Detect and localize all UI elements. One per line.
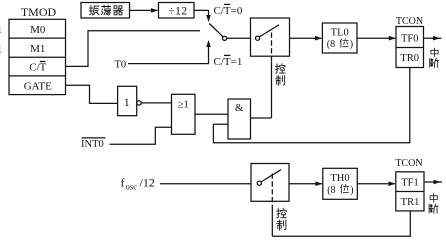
TL0 (8 bit) box	[322, 23, 357, 53]
svg-text:M1: M1	[30, 43, 45, 55]
TCON divider TF1/TR1	[396, 191, 424, 193]
TMOD row divider M0/M1	[9, 37, 66, 39]
svg-text:C/T=0: C/T=0	[214, 5, 243, 17]
interrupt arrow (top)	[424, 37, 442, 39]
control switch box (timer 0 high)	[251, 164, 289, 202]
wire TL0 to TCON	[357, 37, 395, 39]
wire divider to switch top contact	[194, 10, 209, 15]
label 控制 (bottom)	[277, 208, 287, 218]
TCON divider TF0/TR0	[396, 47, 424, 49]
wire pole to control switch	[227, 37, 251, 39]
svg-text:TH0: TH0	[330, 173, 349, 184]
svg-text:TCON: TCON	[395, 158, 422, 169]
svg-text:TCON: TCON	[396, 16, 423, 27]
svg-text:&: &	[235, 102, 244, 114]
svg-text:1: 1	[0, 43, 2, 55]
inverter (NOT) gate box 1	[118, 86, 137, 115]
wire AND output to control line	[251, 117, 272, 119]
svg-text:(8: (8	[327, 39, 335, 50]
svg-text:÷12: ÷12	[168, 6, 187, 18]
TR1 feedback wire to control	[272, 211, 410, 236]
divide-by-12 box	[159, 3, 195, 19]
wire OR to AND	[195, 113, 228, 115]
control switch contact circle (bottom)	[257, 181, 261, 185]
TR0 feedback wire to AND gate	[213, 68, 409, 143]
svg-text:TL0: TL0	[331, 27, 349, 38]
svg-text:): )	[350, 185, 353, 196]
control solid line down to TR1 wire	[271, 208, 273, 237]
TMOD row divider M1/C-T	[9, 56, 66, 58]
svg-text:/12: /12	[140, 176, 155, 190]
control switch contact circle	[256, 36, 260, 40]
label 控制 (top)	[275, 64, 285, 74]
svg-text:TR1: TR1	[401, 197, 420, 208]
wire control to TL0	[290, 37, 322, 39]
svg-text:TR0: TR0	[400, 53, 419, 64]
svg-text:TF0: TF0	[401, 33, 419, 44]
svg-text:≥1: ≥1	[178, 100, 189, 111]
control solid line down to AND output	[271, 62, 273, 119]
svg-text:TMOD: TMOD	[21, 5, 57, 19]
svg-text:GATE: GATE	[24, 81, 52, 93]
label 中断 (top)	[431, 48, 438, 57]
svg-text:1: 1	[124, 97, 130, 109]
oscillator box 振荡器	[81, 3, 130, 19]
wire oscillator to divider	[130, 9, 158, 11]
OR gate (&#8805;1)	[172, 94, 196, 134]
wire INT0 to OR gate	[110, 127, 172, 144]
control switch box (timer 0 low)	[251, 18, 290, 56]
C/T selector switch arm	[209, 24, 223, 37]
svg-text:M0: M0	[30, 24, 46, 36]
TCON box (TF0/TR0)	[396, 27, 424, 68]
C/T selector pole circle	[223, 36, 227, 40]
control switch arm	[259, 25, 279, 37]
svg-text:TF1: TF1	[401, 178, 419, 189]
interrupt arrow (bottom)	[424, 181, 442, 183]
svg-text:): )	[350, 39, 353, 50]
label 中断 (bottom)	[430, 194, 437, 203]
wire from C/T bit	[66, 31, 201, 67]
TMOD register box	[9, 19, 66, 94]
wire fosc to control switch	[160, 183, 251, 185]
svg-text:(8: (8	[327, 185, 335, 196]
wire inverter to OR gate	[141, 102, 171, 104]
wire GATE bit to inverter	[66, 85, 118, 103]
TCON box (TF1/TR1)	[396, 172, 424, 211]
svg-text:C/T: C/T	[29, 62, 46, 74]
TMOD row divider C-T/GATE	[9, 75, 66, 77]
wire control to TH0	[289, 183, 322, 185]
wire TH0 to TCON	[357, 183, 395, 185]
inverter output bubble	[137, 101, 141, 105]
svg-text:C/T=1: C/T=1	[214, 56, 243, 68]
TH0 (8 bit) box	[323, 168, 358, 199]
svg-text:1: 1	[0, 24, 2, 36]
control switch arm (bottom)	[261, 170, 281, 182]
AND gate (&)	[228, 99, 251, 139]
wire T0 to switch bottom contact	[128, 46, 209, 64]
svg-text:T0: T0	[115, 60, 127, 71]
svg-text:INT0: INT0	[81, 139, 104, 150]
svg-text:osc: osc	[126, 182, 138, 192]
control dashed actuating line (bottom)	[271, 174, 273, 208]
control dashed actuating line	[271, 33, 273, 62]
svg-text:f: f	[121, 176, 125, 190]
